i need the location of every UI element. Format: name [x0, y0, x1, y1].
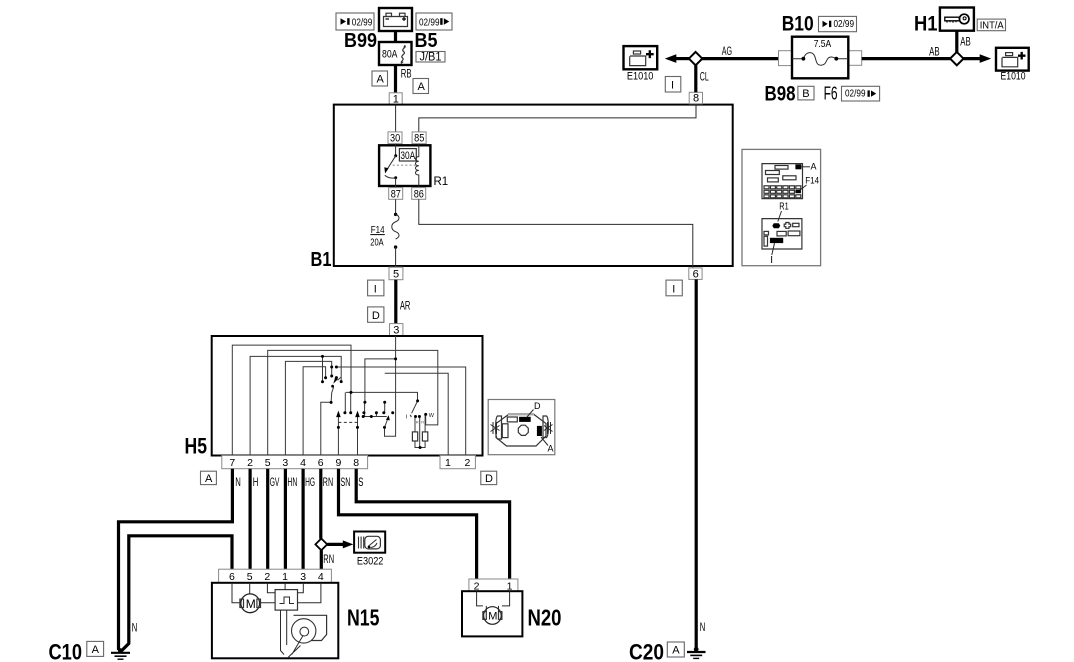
- H5 bus pin7: [232, 345, 351, 455]
- pictogram label D line: [527, 410, 534, 418]
- small rect right: [793, 223, 799, 226]
- validity box B10: [819, 16, 857, 31]
- svg-text:02/99: 02/99: [845, 89, 866, 100]
- wire HN: [284, 469, 287, 570]
- svg-text:2: 2: [465, 457, 471, 469]
- pictogram ring: [518, 425, 528, 435]
- connector B box: [798, 86, 814, 100]
- relay R1 box: [379, 145, 430, 186]
- svg-text:B99: B99: [344, 30, 377, 52]
- H5 resistor R right: [422, 432, 427, 441]
- connector A box left: [372, 71, 388, 86]
- pictogram top strip: [508, 413, 534, 415]
- line to label I: [772, 243, 775, 255]
- svg-text:CL: CL: [700, 69, 709, 83]
- relay switch arm: [387, 156, 396, 170]
- svg-text:F6: F6: [824, 83, 838, 103]
- svg-text:20A: 20A: [370, 236, 383, 248]
- tall rect left: [764, 236, 768, 246]
- fusebox slot mid: [783, 176, 796, 180]
- black rect marker I: [770, 238, 783, 243]
- fuse grid row1: [764, 186, 801, 189]
- svg-text:N: N: [700, 620, 706, 634]
- svg-text:R1: R1: [779, 202, 789, 213]
- reference panel box: [742, 149, 821, 265]
- grounding point E1010 left box: [624, 46, 658, 69]
- svg-text:6: 6: [318, 457, 324, 469]
- pictogram right wing: [543, 416, 548, 438]
- svg-text:2: 2: [247, 457, 253, 469]
- pictogram black rect A: [537, 426, 542, 436]
- rear wiper motor N20 box: [462, 591, 522, 636]
- pictogram left rect: [502, 424, 508, 438]
- svg-text:I: I: [671, 79, 674, 91]
- svg-text:H1: H1: [914, 13, 938, 36]
- H5 dashed link: [338, 421, 357, 423]
- arrow to E1010 right: [964, 57, 982, 60]
- validity box left of B99: [336, 13, 374, 30]
- svg-text:W: W: [429, 413, 435, 419]
- pictogram white rect: [507, 417, 517, 422]
- H5 switch arm a: [331, 387, 334, 402]
- svg-text:2: 2: [264, 571, 270, 583]
- svg-text:INT/A: INT/A: [980, 19, 1004, 31]
- H5 switch arm c: [412, 401, 418, 413]
- H5 bus line to pin2 right: [336, 367, 465, 456]
- N15 cam lever: [288, 635, 303, 657]
- svg-text:5: 5: [393, 268, 399, 280]
- connector INT/A box: [977, 19, 1005, 31]
- svg-text:AG: AG: [722, 44, 732, 58]
- svg-text:GV: GV: [270, 475, 280, 489]
- H5 wire3 junction branch: [365, 359, 396, 402]
- svg-text:AB: AB: [960, 34, 971, 48]
- H5 bus line to pin1 right: [385, 373, 449, 455]
- svg-text:3: 3: [282, 457, 288, 469]
- N15 pin numbers: [229, 571, 324, 583]
- plus connector shape: [784, 223, 791, 229]
- wire N15 pin6 to ground C10: [121, 536, 232, 652]
- wire pin1 to relay 30: [395, 105, 397, 132]
- N20 motor M: [477, 591, 510, 624]
- svg-text:D: D: [534, 401, 541, 411]
- fusebox marker A black: [795, 164, 801, 169]
- wire B1 pin5 to H5 pin3 AR: [394, 280, 397, 324]
- svg-text:H5: H5: [185, 434, 208, 459]
- relay switch contact 30: [395, 144, 397, 156]
- svg-text:A: A: [377, 74, 385, 86]
- fuse F14 squiggle: [392, 214, 399, 239]
- wire key to diamond AB: [955, 31, 958, 52]
- wire RN lower: [320, 550, 323, 569]
- svg-text:8: 8: [353, 457, 359, 469]
- wire SN: [339, 469, 477, 579]
- label J/B1 box: [416, 50, 445, 64]
- wire HG: [302, 469, 305, 570]
- svg-text:A: A: [548, 444, 554, 454]
- H5 line y392: [346, 392, 418, 400]
- svg-text:RB: RB: [401, 67, 412, 81]
- svg-text:A: A: [418, 81, 426, 93]
- svg-text:B10: B10: [782, 13, 814, 36]
- N15 pulse wires down: [281, 610, 287, 654]
- svg-text:87: 87: [391, 188, 401, 200]
- svg-text:R: R: [421, 420, 424, 425]
- junction dot: [394, 245, 397, 248]
- svg-text:RN: RN: [323, 475, 333, 489]
- svg-text:5: 5: [247, 571, 253, 583]
- wire battery to fuse: [394, 31, 397, 42]
- H5 stub contacts392: [345, 392, 350, 412]
- wiper motor N15 box: [212, 583, 338, 659]
- wire 87 to fuse F14: [395, 199, 397, 214]
- node diamond RN: [315, 539, 327, 551]
- svg-text:B: B: [802, 88, 809, 100]
- H5 pin6 stub: [321, 402, 331, 455]
- pictogram left whiskers: [491, 422, 500, 434]
- svg-text:02/99: 02/99: [419, 18, 440, 29]
- svg-text:HN: HN: [287, 475, 297, 489]
- svg-text:A: A: [205, 473, 213, 485]
- svg-text:SN: SN: [341, 475, 351, 489]
- connector D box H5: [481, 471, 497, 485]
- H5 wire3 vertical: [385, 336, 396, 436]
- svg-text:B1: B1: [311, 249, 332, 271]
- pin 85: [412, 132, 426, 145]
- pictogram body: [496, 415, 546, 447]
- svg-text:D: D: [485, 473, 493, 485]
- ground symbol C20: [687, 647, 706, 659]
- svg-text:J/B1: J/B1: [420, 50, 442, 64]
- svg-text:HG: HG: [305, 475, 315, 489]
- svg-text:M: M: [246, 597, 256, 611]
- wire fuse to connector 1, RB: [394, 65, 397, 93]
- svg-text:6: 6: [693, 268, 699, 280]
- relay dashed link: [393, 164, 416, 166]
- pictogram black rect D: [519, 417, 531, 422]
- pin 6 of B1: [689, 268, 702, 280]
- svg-text:86: 86: [414, 188, 424, 200]
- N20 pin numbers: [474, 580, 513, 592]
- H5 bus pin2: [250, 356, 341, 455]
- H5 contact stubs: [365, 402, 385, 416]
- H5 junction dots: [321, 355, 427, 449]
- svg-text:N: N: [235, 475, 241, 489]
- wire labels row: [235, 475, 363, 489]
- N15 cam wheel: [292, 619, 316, 643]
- connector A box C20: [667, 642, 684, 657]
- H5 bus pin4: [303, 367, 326, 456]
- wire S: [356, 469, 509, 579]
- svg-text:1: 1: [282, 571, 288, 583]
- pin 87: [389, 188, 403, 201]
- relay coil: [416, 144, 419, 188]
- svg-text:A: A: [672, 645, 680, 657]
- H5 bus pin5: [268, 350, 438, 455]
- svg-text:5: 5: [265, 457, 271, 469]
- wire H: [249, 469, 252, 570]
- svg-text:H: H: [253, 475, 259, 489]
- H5 switch arm b: [385, 420, 388, 428]
- svg-text:30A: 30A: [400, 150, 415, 162]
- svg-text:4: 4: [300, 457, 306, 469]
- ground symbol C10: [111, 648, 130, 659]
- svg-text:R: R: [416, 420, 419, 425]
- svg-text:N20: N20: [528, 605, 562, 631]
- line R1 to relay blob: [778, 211, 782, 222]
- pictogram left wing: [496, 416, 502, 439]
- H5 arrow pin9: [337, 417, 339, 456]
- fusebox top slot: [775, 166, 788, 170]
- validity box right of B5: [416, 13, 452, 30]
- connector I box mid: [368, 280, 384, 296]
- svg-text:7.5A: 7.5A: [814, 38, 832, 50]
- wire N pin7 to ground C10: [119, 469, 233, 650]
- svg-text:3: 3: [393, 325, 399, 337]
- main wire diamond to fuse: [702, 57, 780, 60]
- line F14 to fuse: [800, 185, 807, 191]
- wire CL down to pin 8: [694, 65, 697, 92]
- svg-text:N: N: [132, 621, 138, 635]
- wiper motor N15 pin row: [219, 569, 332, 583]
- small rect left: [764, 231, 769, 235]
- H5 bus pin3: [285, 361, 331, 455]
- svg-text:30: 30: [390, 133, 400, 145]
- rear motor N20 pin row: [469, 579, 518, 591]
- pin 1 of B1: [389, 93, 402, 106]
- validity box F6: [842, 86, 880, 101]
- svg-text:85: 85: [414, 133, 424, 145]
- node diamond CL: [689, 52, 702, 65]
- relay fuse 30A box: [399, 149, 416, 162]
- svg-text:M: M: [488, 611, 497, 623]
- H5 arrow pin8: [357, 417, 359, 456]
- mid rects: [777, 231, 786, 236]
- svg-text:F14: F14: [805, 176, 819, 186]
- wiper motor pictogram box: [488, 400, 555, 455]
- main wire fuse to right diamond: [862, 57, 951, 60]
- unit B1 box: [334, 105, 733, 266]
- node diamond AB: [950, 52, 963, 65]
- H5 bus pin2 branch: [322, 356, 324, 381]
- svg-text:I: I: [770, 255, 773, 266]
- svg-text:C10: C10: [49, 640, 83, 662]
- pin 3 of H5: [390, 324, 403, 337]
- connector D box mid: [368, 307, 384, 322]
- svg-text:R1: R1: [434, 176, 449, 188]
- svg-text:02/99: 02/99: [834, 19, 855, 30]
- svg-text:AR: AR: [400, 298, 411, 312]
- svg-text:S: S: [358, 475, 363, 489]
- wire RN upper: [319, 469, 322, 539]
- junction dot: [394, 213, 397, 216]
- wire pin8 to relay 85: [419, 105, 696, 132]
- pictogram label A line: [541, 437, 548, 446]
- N15 pulse unit box: [275, 590, 297, 611]
- fuse 80A B5 box: [379, 42, 412, 65]
- svg-text:D: D: [372, 310, 380, 322]
- svg-text:RN: RN: [323, 552, 334, 566]
- fuse grid row2 with F14 black: [764, 190, 801, 194]
- svg-text:C20: C20: [629, 640, 664, 662]
- connector A box right: [413, 79, 429, 94]
- connector A box H5: [201, 471, 217, 485]
- fuse B10 box: [779, 37, 862, 79]
- arrow to E3022: [327, 543, 344, 546]
- svg-text:3: 3: [300, 571, 306, 583]
- pin 8 of B1: [689, 92, 702, 104]
- svg-text:A: A: [92, 644, 100, 656]
- intermittent wiper E3022 box: [354, 532, 385, 553]
- H5 resistor wires: [415, 414, 425, 447]
- pin 5 of B1: [389, 267, 403, 280]
- wire 87 down: [395, 178, 397, 188]
- svg-text:B98: B98: [765, 83, 796, 106]
- pictogram right whiskers: [544, 422, 553, 434]
- svg-text:6: 6: [229, 571, 235, 583]
- wire B1 pin6 to ground C20: [695, 279, 698, 649]
- fusebox slots left: [766, 171, 780, 175]
- svg-text:7: 7: [229, 457, 235, 469]
- svg-text:4: 4: [318, 571, 324, 583]
- svg-text:AB: AB: [929, 44, 940, 58]
- relay panel outline: [762, 219, 802, 249]
- svg-text:9: 9: [336, 457, 342, 469]
- svg-text:E1010: E1010: [1001, 71, 1026, 83]
- wire GV: [266, 469, 269, 570]
- wire F14 to pin 5: [395, 247, 397, 267]
- svg-text:N15: N15: [347, 605, 380, 631]
- H5 right pin numbers: [445, 457, 471, 469]
- connector I box: [665, 77, 681, 93]
- svg-text:02/99: 02/99: [352, 18, 373, 29]
- battery B99 symbol box: [379, 8, 412, 31]
- pin 30: [388, 132, 402, 145]
- switch unit H5 box: [212, 336, 483, 456]
- pin 86: [412, 188, 426, 201]
- svg-text:E3022: E3022: [357, 556, 384, 568]
- svg-text:A: A: [811, 162, 817, 172]
- N15 internal wires: [261, 583, 321, 603]
- fusebox pictogram outline: [762, 164, 803, 199]
- svg-text:E1010: E1010: [627, 71, 654, 83]
- key switch H1 box: [940, 8, 974, 31]
- H5 pin row left box: [222, 456, 368, 469]
- svg-text:1: 1: [393, 93, 399, 105]
- svg-text:I: I: [672, 283, 675, 295]
- wire 86 to pin6: [419, 199, 693, 268]
- line to label A: [801, 166, 810, 168]
- H5 switch common line: [363, 416, 387, 418]
- svg-text:80A: 80A: [382, 49, 398, 61]
- H5 pin numbers: [229, 457, 359, 469]
- svg-text:1: 1: [445, 457, 451, 469]
- arrow to E1010 left: [674, 57, 689, 60]
- connector I box right mid: [666, 280, 682, 296]
- N15 cam housing: [294, 615, 327, 640]
- connector A box C10: [87, 641, 104, 656]
- svg-text:I: I: [374, 283, 377, 295]
- relay blob black: [772, 223, 780, 228]
- svg-text:8: 8: [693, 93, 699, 105]
- H5 pin row right box: [440, 456, 475, 469]
- H5 resistor R left: [412, 432, 417, 441]
- N15 motor M: [232, 583, 261, 613]
- grounding point E1010 right box: [996, 48, 1029, 71]
- fuse grid row3: [764, 195, 801, 198]
